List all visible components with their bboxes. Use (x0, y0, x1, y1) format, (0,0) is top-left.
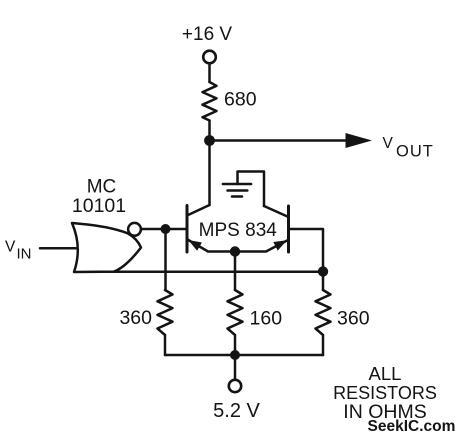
transistor Q2 emitter (235, 240, 288, 252)
ground (223, 184, 251, 197)
svg-text:MPS 834: MPS 834 (199, 220, 278, 241)
wire node D to R360 right (322, 272, 325, 291)
wire R160 to bottom bus (234, 335, 237, 355)
svg-text:SeekIC.com: SeekIC.com (368, 418, 456, 435)
transistor Q1 emitter arrow (PNP) (188, 240, 202, 251)
svg-text:10101: 10101 (72, 195, 126, 217)
transistor Q2 collector slant (264, 206, 289, 217)
wire Q2 base to node D (289, 229, 324, 272)
svg-text:680: 680 (224, 89, 257, 111)
wire R360 left to bottom bus (164, 335, 167, 355)
svg-text:+16 V: +16 V (182, 24, 233, 45)
wire node C to R160 (234, 252, 237, 291)
transistor Q2 base bar (287, 206, 290, 252)
svg-text:IN: IN (17, 246, 32, 263)
wire bottom bus (165, 354, 323, 357)
wire R680 to node A (208, 121, 211, 141)
node A junction dot (204, 135, 215, 146)
svg-text:360: 360 (337, 308, 370, 330)
resistor 680 (203, 82, 217, 121)
transistor Q1 emitter (188, 240, 236, 252)
terminal 5.2 V (229, 380, 241, 392)
wire terminal to R680 (208, 64, 211, 83)
wire Q2 collector to ground (238, 172, 265, 207)
resistor 360 left (158, 290, 173, 335)
svg-text:160: 160 (250, 308, 283, 330)
wire NOR output to Q1 base (141, 228, 187, 231)
terminal +16 V (203, 51, 216, 64)
node D junction dot (318, 266, 328, 276)
svg-text:RESISTORS: RESISTORS (333, 383, 437, 403)
svg-text:V: V (5, 239, 16, 256)
wire VIN input (40, 247, 81, 250)
svg-text:360: 360 (119, 307, 152, 329)
svg-text:ALL: ALL (369, 363, 402, 384)
wire node A to output arrow (210, 139, 348, 142)
wire node B down to R360 left (164, 229, 167, 290)
svg-text:5.2 V: 5.2 V (213, 400, 260, 422)
transistor Q1 base bar (186, 206, 189, 253)
wire R360 right to bottom bus (322, 335, 325, 355)
wire node E to 5.2V terminal (234, 355, 237, 380)
node E bottom junction dot (230, 350, 240, 360)
arrowhead VOUT (346, 133, 373, 148)
node C emitter junction dot (230, 246, 240, 256)
transistor Q1 collector slant (187, 205, 210, 216)
U1 output bubble (128, 223, 141, 236)
node B junction dot (161, 224, 171, 234)
svg-text:V: V (383, 135, 394, 152)
resistor 160 (228, 290, 243, 335)
transistor Q2 emitter arrow (PNP) (273, 240, 287, 250)
or-gate U1 MC10101 (72, 223, 141, 272)
resistor 360 right (316, 290, 331, 335)
svg-text:OUT: OUT (396, 143, 434, 161)
wire node A down to Q1 collector (208, 141, 211, 206)
wire OR output bus (98, 271, 323, 274)
